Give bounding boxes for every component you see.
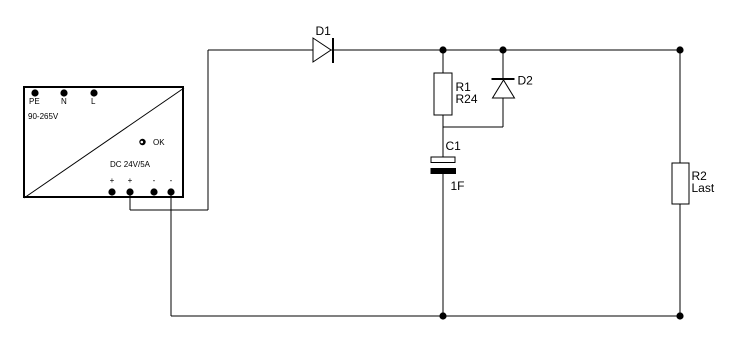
node junction top right corner — [676, 46, 683, 53]
power supply U1 diagonal — [24, 88, 184, 198]
svg-text:90-265V: 90-265V — [28, 112, 59, 121]
svg-text:+: + — [128, 176, 133, 185]
wire left riser — [207, 50, 209, 210]
wire plus link horizontal — [130, 209, 208, 211]
wire R2 top lead — [679, 50, 681, 163]
resistor R1 — [434, 73, 452, 115]
wire plus terminal drop — [129, 192, 131, 210]
capacitor C1 top plate — [431, 157, 455, 163]
terminal N — [60, 89, 67, 96]
svg-text:-: - — [170, 176, 173, 185]
svg-text:Last: Last — [692, 181, 715, 195]
svg-text:PE: PE — [29, 97, 40, 106]
terminal -1 — [150, 188, 157, 195]
resistor R2 — [672, 163, 689, 204]
zener diode D2 — [492, 78, 515, 80]
svg-text:C1: C1 — [446, 139, 462, 153]
svg-text:N: N — [61, 97, 67, 106]
wire D2 to R1 link — [443, 126, 503, 128]
wire R1 bottom lead — [442, 115, 444, 157]
wire bottom rail — [171, 315, 680, 317]
wire R2 bottom lead — [679, 204, 681, 316]
svg-text:D2: D2 — [518, 74, 534, 88]
node junction bottom right corner — [676, 312, 683, 319]
terminal +2 — [126, 188, 133, 195]
svg-text:-: - — [153, 176, 156, 185]
wire C1 bottom lead — [442, 174, 444, 316]
svg-text:D1: D1 — [316, 24, 332, 38]
capacitor C1 bottom plate — [431, 168, 457, 174]
wire D2 top lead — [502, 50, 504, 79]
svg-text:DC 24V/5A: DC 24V/5A — [110, 160, 151, 169]
svg-text:R24: R24 — [456, 92, 478, 106]
LED indicator — [139, 139, 145, 145]
power supply U1 body — [24, 87, 183, 197]
wire minus terminal drop — [170, 192, 172, 316]
svg-text:1F: 1F — [451, 179, 465, 193]
svg-text:L: L — [91, 97, 96, 106]
terminal -2 — [167, 188, 174, 195]
wire D2 bottom lead — [502, 98, 504, 127]
node junction bottom C1 — [439, 312, 446, 319]
node junction top R1 — [439, 46, 446, 53]
node junction top D2 — [499, 46, 506, 53]
svg-text:+: + — [110, 176, 115, 185]
wire R1 top lead — [442, 50, 444, 73]
diode D1 — [313, 38, 331, 62]
terminal +1 — [108, 188, 115, 195]
svg-text:OK: OK — [153, 138, 165, 147]
wire top rail — [208, 49, 680, 51]
terminal L — [90, 89, 97, 96]
terminal PE — [31, 89, 38, 96]
